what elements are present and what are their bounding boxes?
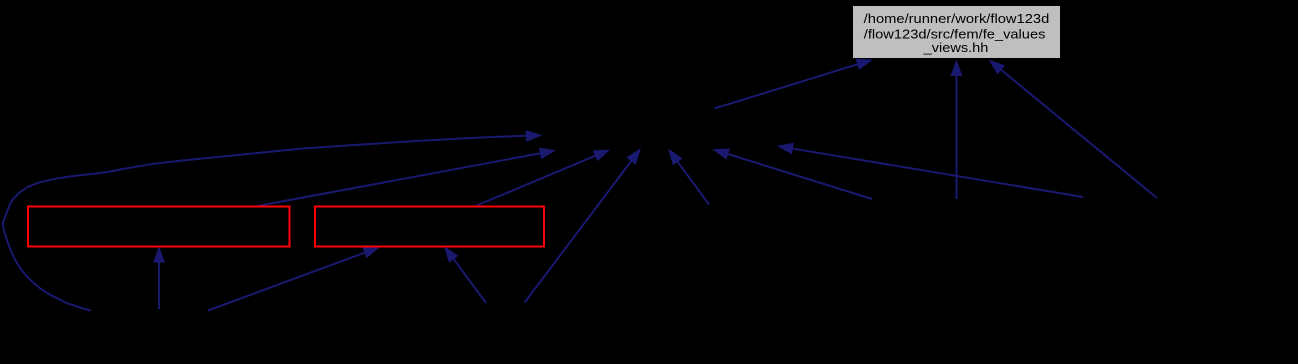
svg-text:_views.hh: _views.hh: [923, 40, 989, 55]
edge: hidden bottom node -> fe_values.hh node (steep): [525, 148, 641, 303]
edge: hidden mid-right node -> fe_values.hh node: [713, 149, 873, 200]
edge: hidden far-right node -> fe_values.hh node: [777, 143, 1083, 197]
edge: hidden bottom node -> red box 2 (from lower left): [208, 247, 380, 311]
node: /home/runner/work/flow123d/flow123d/src/fem/fe_values_views.hh (current file, grey filled box with black label): [853, 6, 1060, 58]
edge: hidden bottom node -> red box 1 (vertical arrow): [153, 246, 165, 309]
node: red outlined box 2 (truncated includer node, label hidden): [315, 207, 544, 247]
node: red outlined box 1 (truncated includer node, label hidden): [28, 207, 290, 247]
edge: hidden node -> grey box (vertical arrow): [951, 60, 963, 200]
svg-text:/home/runner/work/flow123d: /home/runner/work/flow123d: [864, 11, 1050, 26]
edge: hidden bottom node -> red box 2 (from lower right): [444, 246, 486, 303]
edge: hidden bottom-left node -> fe_values.hh node (long curve around red box 1): [3, 130, 543, 311]
edge: red box 2 -> fe_values.hh node: [476, 150, 611, 207]
edge: fe_values.hh node -> grey box (up-right arrow): [715, 59, 874, 109]
edge: hidden right node -> grey box (diagonal arrow): [989, 60, 1158, 199]
edge: red box 1 -> fe_values.hh node: [258, 148, 557, 207]
edge: hidden short node -> fe_values.hh node: [668, 149, 709, 205]
